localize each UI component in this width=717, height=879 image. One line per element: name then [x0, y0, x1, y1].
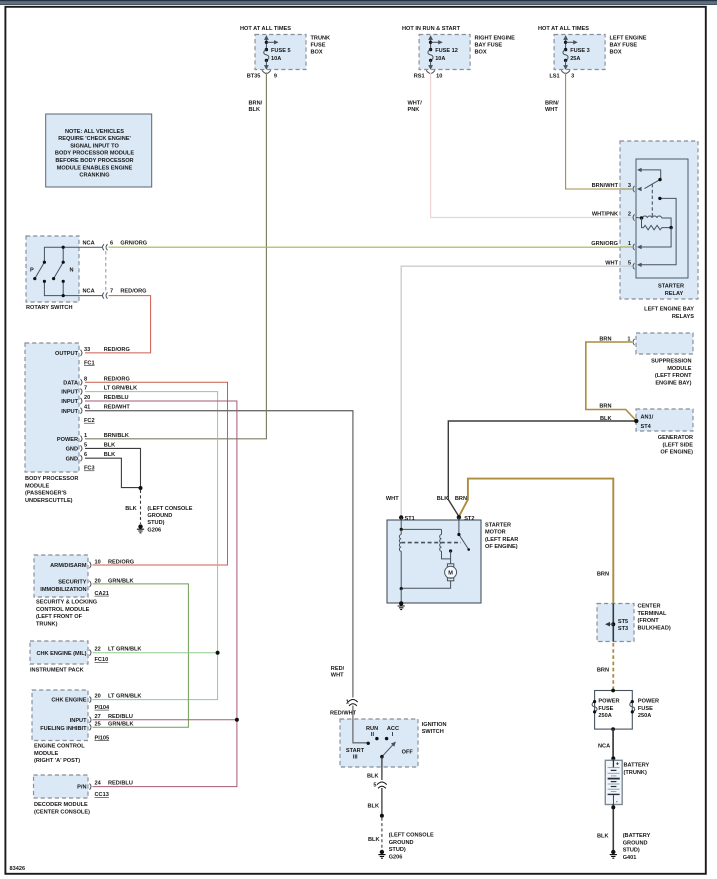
svg-text:CONTROL MODULE: CONTROL MODULE: [36, 607, 90, 613]
pin 7 INPUT wire LT GRN/BLK to instrument pack + ECM: [85, 392, 218, 700]
top slate bar: [0, 0, 717, 5]
svg-text:BLK: BLK: [597, 834, 609, 840]
starter internals: [399, 517, 470, 603]
svg-text:ARM/DISARM: ARM/DISARM: [50, 563, 87, 569]
svg-text:TERMINAL: TERMINAL: [638, 611, 667, 617]
starter ground: [398, 601, 405, 609]
relay pin 1: [633, 244, 635, 250]
junction BPM grounds: [139, 486, 143, 490]
motor return: [401, 581, 450, 588]
svg-text:BAY FUSE: BAY FUSE: [610, 43, 638, 49]
pin 1 POWER: [81, 436, 83, 442]
svg-text:(PASSENGER'S: (PASSENGER'S: [25, 491, 67, 497]
starter relay inner box: [636, 159, 688, 278]
svg-text:BLK: BLK: [367, 774, 379, 780]
svg-text:IGNITION: IGNITION: [422, 722, 447, 728]
svg-text:NOTE: ALL VEHICLES: NOTE: ALL VEHICLES: [65, 129, 124, 135]
svg-text:RED/BLU: RED/BLU: [108, 781, 133, 787]
wire stub BRN/WHT into relay pin 3: [619, 188, 633, 190]
svg-text:FUSE 3: FUSE 3: [570, 48, 590, 54]
relay switch output to pin 5: [641, 198, 676, 264]
svg-text:BAY FUSE: BAY FUSE: [475, 43, 503, 49]
svg-text:G401: G401: [623, 855, 637, 861]
svg-text:CENTER: CENTER: [638, 604, 661, 610]
svg-text:TRUNK: TRUNK: [311, 36, 331, 42]
svg-text:RED/BLU: RED/BLU: [104, 395, 129, 401]
svg-text:22: 22: [95, 647, 101, 653]
dashed BLK to ground: [381, 818, 383, 850]
svg-text:RED/BLU: RED/BLU: [108, 714, 133, 720]
svg-text:BOX: BOX: [475, 50, 487, 56]
pin 6 GND wire BLK: [85, 458, 139, 487]
svg-text:BULKHEAD): BULKHEAD): [638, 625, 671, 631]
ground G206 (left console ground stud): [137, 524, 144, 532]
svg-text:RED/: RED/: [331, 666, 345, 672]
mechanical link dashed: [651, 184, 653, 217]
svg-text:CHK ENGINE (MIL): CHK ENGINE (MIL): [36, 651, 86, 657]
svg-text:ENGINE BAY): ENGINE BAY): [655, 380, 691, 386]
svg-text:MODULE: MODULE: [34, 751, 59, 757]
ground G401 (battery ground stud): [610, 850, 617, 858]
svg-text:FUSE 12: FUSE 12: [435, 48, 458, 54]
svg-text:(RIGHT 'A' POST): (RIGHT 'A' POST): [34, 758, 80, 764]
pin 20 INPUT wire RED/BLU to ECM + decoder: [85, 401, 237, 787]
svg-text:20: 20: [95, 578, 101, 584]
svg-text:ST3: ST3: [618, 626, 628, 632]
svg-text:10A: 10A: [271, 56, 281, 62]
pull-in winding (left coil): [399, 529, 401, 589]
svg-text:LEFT ENGINE: LEFT ENGINE: [610, 36, 647, 42]
pin 24 P/N: [90, 784, 92, 790]
wire BLK generator to starter ST2: [448, 421, 636, 517]
dashed BLK stub to G206: [140, 490, 142, 524]
svg-text:BRN: BRN: [599, 404, 611, 410]
svg-text:(TRUNK): (TRUNK): [624, 770, 647, 776]
mechanical link dashed: [401, 542, 461, 544]
svg-text:BRN/: BRN/: [545, 101, 559, 107]
pin 27 INPUT wire RED/BLU: [93, 719, 236, 721]
ignition blade: [382, 744, 394, 757]
svg-text:SUPPRESSION: SUPPRESSION: [651, 359, 691, 365]
svg-text:RED/ORG: RED/ORG: [104, 347, 130, 353]
starter terminal ST2: [457, 515, 461, 519]
svg-text:BOX: BOX: [311, 50, 323, 56]
svg-text:INPUT: INPUT: [61, 399, 78, 405]
rotary switch box: [26, 236, 79, 302]
svg-text:UNDERSCUTTLE): UNDERSCUTTLE): [25, 498, 73, 504]
left engine bay relays outer box: [620, 141, 698, 299]
svg-text:GRN/BLK: GRN/BLK: [108, 721, 133, 727]
svg-text:FUSE: FUSE: [638, 706, 653, 712]
svg-text:MOTOR: MOTOR: [485, 530, 506, 536]
svg-text:20: 20: [84, 395, 90, 401]
wire WHT/PNK RS1 to starter relay pin 2: [431, 73, 632, 218]
svg-text:OF ENGINE): OF ENGINE): [660, 450, 693, 456]
svg-text:20: 20: [95, 694, 101, 700]
svg-text:10: 10: [436, 73, 442, 79]
svg-text:GROUND: GROUND: [147, 513, 172, 519]
wire WHT relay pin5 to starter ST1: [401, 266, 632, 516]
svg-text:7: 7: [84, 386, 87, 392]
pin 41 INPUT wire RED/WHT to ignition switch: [85, 411, 353, 698]
svg-text:3: 3: [571, 73, 574, 79]
battery box: [605, 760, 622, 804]
svg-text:BRN: BRN: [597, 572, 609, 578]
svg-text:(FRONT: (FRONT: [638, 618, 660, 624]
wire BRN starter ST2 to center terminal: [459, 479, 613, 604]
inline connector 5: [377, 782, 387, 788]
wire RED/ORG rotary NCA 7 to BPM output 33: [85, 296, 151, 353]
wire stub GRN/ORG into relay pin 1: [619, 246, 633, 248]
svg-text:GND: GND: [66, 447, 78, 453]
svg-text:START: START: [346, 748, 365, 754]
svg-text:(CENTER CONSOLE): (CENTER CONSOLE): [34, 809, 90, 815]
svg-text:27: 27: [95, 714, 101, 720]
svg-text:7: 7: [110, 289, 113, 295]
center terminal box: [597, 604, 634, 642]
svg-text:RIGHT ENGINE: RIGHT ENGINE: [475, 36, 516, 42]
svg-text:DECODER MODULE: DECODER MODULE: [34, 802, 88, 808]
svg-text:10A: 10A: [435, 56, 445, 62]
svg-text:STUD): STUD): [389, 847, 406, 853]
power fuse element right: [630, 702, 635, 712]
svg-text:BLK: BLK: [104, 452, 116, 458]
wire BRN suppression to generator: [586, 342, 637, 421]
svg-text:24: 24: [95, 781, 102, 787]
svg-text:(LEFT CONSOLE: (LEFT CONSOLE: [147, 506, 192, 512]
svg-text:BODY PROCESSOR: BODY PROCESSOR: [25, 476, 78, 482]
svg-text:TRUNK): TRUNK): [36, 621, 58, 627]
svg-text:6: 6: [84, 452, 87, 458]
svg-text:MODULE: MODULE: [25, 483, 50, 489]
ignition internals: [367, 737, 396, 759]
ground G206 (left console ground stud): [378, 850, 385, 858]
svg-text:MODULE ENABLES ENGINE: MODULE ENABLES ENGINE: [57, 165, 133, 171]
svg-text:POWER: POWER: [638, 699, 659, 705]
inline connector 1: [348, 700, 358, 706]
trunk fuse box: [240, 26, 330, 79]
wire RED/WHT connector to ignition switch: [353, 706, 367, 743]
suppression pin 1: [633, 339, 635, 345]
svg-text:250A: 250A: [598, 713, 611, 719]
svg-text:3: 3: [628, 183, 631, 189]
svg-text:NCA: NCA: [598, 744, 610, 750]
svg-text:BRN: BRN: [455, 496, 467, 502]
svg-text:POWER: POWER: [57, 437, 78, 443]
svg-text:LT GRN/BLK: LT GRN/BLK: [104, 386, 137, 392]
relay pin 3: [633, 186, 635, 192]
svg-text:AN1/: AN1/: [641, 415, 654, 421]
body processor module box: [25, 343, 79, 472]
svg-text:FC10: FC10: [95, 657, 109, 663]
svg-text:6: 6: [110, 240, 113, 246]
terminal arrow ST5/ST3: [611, 622, 615, 626]
svg-text:GRN/ORG: GRN/ORG: [591, 241, 618, 247]
pin 8 DATA wire RED/ORG to security module: [85, 382, 228, 565]
svg-text:P/N: P/N: [77, 785, 86, 791]
svg-text:BLK: BLK: [368, 837, 380, 843]
svg-text:P: P: [30, 268, 34, 274]
svg-text:N: N: [70, 268, 74, 274]
svg-text:BLK: BLK: [104, 442, 116, 448]
svg-text:(BATTERY: (BATTERY: [623, 833, 651, 839]
svg-text:RED/WHT: RED/WHT: [104, 405, 131, 411]
motor M: [447, 564, 453, 567]
svg-text:MODULE: MODULE: [667, 366, 692, 372]
junction LT GRN/BLK: [216, 651, 220, 655]
svg-text:STARTER: STARTER: [658, 284, 684, 290]
svg-text:NCA: NCA: [83, 289, 95, 295]
svg-text:HOT IN RUN & START: HOT IN RUN & START: [402, 26, 461, 32]
svg-text:RED/ORG: RED/ORG: [108, 559, 134, 565]
solenoid feed: [401, 518, 441, 530]
svg-text:III: III: [353, 754, 358, 760]
svg-text:ENGINE CONTROL: ENGINE CONTROL: [34, 744, 85, 750]
svg-text:G206: G206: [147, 527, 161, 533]
svg-text:(LEFT FRONT: (LEFT FRONT: [655, 373, 692, 379]
svg-text:CC13: CC13: [95, 792, 109, 798]
svg-text:GROUND: GROUND: [389, 840, 414, 846]
svg-text:10: 10: [95, 559, 101, 565]
svg-text:STARTER: STARTER: [485, 523, 511, 529]
svg-text:FUSE 5: FUSE 5: [271, 48, 291, 54]
svg-text:GROUND: GROUND: [623, 840, 648, 846]
starter switch: [459, 517, 469, 549]
svg-text:CHK ENGINE: CHK ENGINE: [51, 698, 86, 704]
svg-text:HOT AT ALL TIMES: HOT AT ALL TIMES: [538, 26, 589, 32]
svg-text:25: 25: [95, 721, 101, 727]
svg-text:INPUT: INPUT: [70, 718, 87, 724]
dashed BRN wire to power fuse: [612, 643, 614, 689]
svg-text:STUD): STUD): [147, 520, 164, 526]
power fuse element left: [592, 702, 597, 712]
relay coil: [636, 216, 671, 228]
svg-text:GND: GND: [66, 456, 78, 462]
pin 5 GND wire BLK: [85, 448, 141, 488]
svg-text:ST4: ST4: [641, 424, 652, 430]
svg-text:9: 9: [274, 73, 277, 79]
relay coil shunt resistor: [642, 218, 672, 230]
svg-text:BRN/WHT: BRN/WHT: [592, 183, 619, 189]
svg-text:250A: 250A: [638, 713, 651, 719]
svg-text:II: II: [371, 732, 375, 738]
wire BLK ignition to ground: [381, 757, 383, 780]
pin 20 CHK ENGINE: [90, 697, 92, 703]
svg-text:FUSE: FUSE: [311, 43, 326, 49]
security & locking control module box: [34, 555, 88, 597]
svg-text:FC2: FC2: [84, 418, 95, 424]
svg-text:G206: G206: [389, 854, 403, 860]
relay pin 5: [633, 263, 635, 269]
svg-text:BLK: BLK: [368, 804, 380, 810]
power fuse box: [595, 691, 633, 730]
svg-text:RS1: RS1: [414, 73, 425, 79]
svg-text:BATTERY: BATTERY: [624, 763, 650, 769]
svg-text:(LEFT SIDE: (LEFT SIDE: [663, 442, 694, 448]
svg-text:WHT: WHT: [331, 672, 344, 678]
svg-text:(LEFT REAR: (LEFT REAR: [485, 537, 518, 543]
svg-text:BRN: BRN: [597, 668, 609, 674]
suppression module box: [636, 333, 693, 354]
svg-text:INSTRUMENT PACK: INSTRUMENT PACK: [30, 668, 84, 674]
fuse LS1 (left engine bay): [538, 26, 647, 79]
svg-text:RELAYS: RELAYS: [672, 314, 694, 320]
svg-text:1: 1: [84, 433, 87, 439]
wire GRN/ORG rotary to relay pin 1: [109, 246, 633, 248]
svg-text:M: M: [448, 571, 453, 577]
svg-text:STUD): STUD): [623, 848, 640, 854]
svg-text:INPUT: INPUT: [61, 409, 78, 415]
svg-text:BOX: BOX: [610, 50, 622, 56]
svg-text:8: 8: [84, 376, 87, 382]
svg-text:CRANKING: CRANKING: [79, 173, 109, 179]
junction RED/BLU: [235, 718, 239, 722]
svg-text:BLK: BLK: [600, 416, 612, 422]
pin 20 SECURITY IMMOBILIZATION wire GRN/BLK to ECM 25: [93, 584, 189, 727]
svg-text:(LEFT CONSOLE: (LEFT CONSOLE: [389, 833, 434, 839]
svg-text:BLK: BLK: [249, 107, 261, 113]
svg-text:ST5: ST5: [618, 619, 628, 625]
coil return to pin 1: [641, 228, 671, 247]
connector boundary dashed: [105, 251, 107, 292]
svg-text:CA21: CA21: [95, 591, 109, 597]
svg-text:POWER: POWER: [598, 699, 619, 705]
relay switch blade: [645, 180, 661, 189]
relay pin 2: [633, 214, 635, 220]
pin 33 OUTPUT: [81, 350, 83, 356]
svg-text:33: 33: [84, 347, 90, 353]
generator box: [636, 409, 693, 431]
svg-text:ST2: ST2: [464, 516, 474, 522]
svg-text:BT35: BT35: [247, 73, 261, 79]
svg-text:25A: 25A: [570, 56, 580, 62]
svg-text:FUELING INHIBIT: FUELING INHIBIT: [40, 726, 87, 732]
svg-text:PI105: PI105: [95, 735, 110, 741]
svg-text:SECURITY & LOCKING: SECURITY & LOCKING: [36, 600, 97, 606]
svg-text:RED/ORG: RED/ORG: [120, 289, 146, 295]
wire BRN/BLK trunk fuse to BPM power: [85, 73, 266, 439]
svg-text:SIGNAL INPUT TO: SIGNAL INPUT TO: [70, 143, 119, 149]
svg-text:ST1: ST1: [405, 516, 415, 522]
svg-text:HOT AT ALL TIMES: HOT AT ALL TIMES: [240, 26, 291, 32]
svg-text:FUSE: FUSE: [598, 706, 613, 712]
svg-text:GRN/BLK: GRN/BLK: [108, 578, 133, 584]
svg-text:BLK: BLK: [437, 496, 449, 502]
generator terminal AN1/ST4: [634, 419, 638, 423]
instrument pack box: [30, 641, 88, 664]
battery cells: [608, 760, 620, 804]
svg-text:BRN/BLK: BRN/BLK: [104, 433, 129, 439]
svg-text:BODY PROCESSOR MODULE: BODY PROCESSOR MODULE: [55, 151, 134, 157]
svg-text:5: 5: [84, 442, 87, 448]
svg-text:GENERATOR: GENERATOR: [658, 435, 693, 441]
svg-text:1: 1: [628, 241, 631, 247]
svg-text:OF ENGINE): OF ENGINE): [485, 544, 518, 550]
hold-in winding (right coil): [440, 529, 451, 559]
svg-text:LEFT ENGINE BAY: LEFT ENGINE BAY: [644, 307, 694, 313]
wire BLK battery to ground: [612, 804, 614, 850]
svg-text:SECURITY: SECURITY: [58, 579, 87, 585]
svg-text:OFF: OFF: [402, 750, 414, 756]
decoder module box: [34, 775, 89, 798]
NCA pin 7 connector: [103, 293, 105, 299]
motor contact: [449, 549, 452, 552]
svg-text:LT GRN/BLK: LT GRN/BLK: [108, 694, 141, 700]
svg-text:FC1: FC1: [84, 360, 95, 366]
svg-text:1: 1: [346, 700, 349, 706]
svg-text:LS1: LS1: [549, 73, 559, 79]
svg-text:ROTARY SWITCH: ROTARY SWITCH: [26, 305, 73, 311]
svg-text:5: 5: [373, 783, 376, 789]
svg-text:BLK: BLK: [125, 506, 137, 512]
NCA pin 6 connector: [103, 244, 105, 250]
ignition switch box: [340, 719, 418, 767]
svg-text:IMMOBILIZATION: IMMOBILIZATION: [40, 587, 86, 593]
svg-text:83426: 83426: [10, 866, 26, 872]
svg-text:PNK: PNK: [408, 107, 420, 113]
pin 25 FUELING INHIBIT: [90, 724, 92, 730]
svg-text:-: -: [616, 799, 618, 805]
svg-text:NCA: NCA: [83, 240, 95, 246]
svg-text:BRN/: BRN/: [249, 101, 263, 107]
wire BRN/WHT LS1 to starter relay pin 3: [566, 73, 632, 190]
svg-text:SWITCH: SWITCH: [422, 729, 444, 735]
pin 10 ARM/DISARM: [90, 562, 92, 568]
pin 22 CHK ENGINE (MIL) wire LT GRN/BLK: [93, 652, 217, 654]
wire through center terminal box: [612, 604, 614, 642]
svg-text:(LEFT FRONT OF: (LEFT FRONT OF: [36, 614, 83, 620]
starter motor box: [387, 520, 481, 603]
svg-text:2: 2: [628, 212, 631, 218]
svg-text:DATA: DATA: [63, 380, 78, 386]
note box: [46, 114, 152, 187]
svg-text:REQUIRE 'CHECK ENGINE': REQUIRE 'CHECK ENGINE': [58, 136, 131, 142]
svg-text:OUTPUT: OUTPUT: [55, 351, 79, 357]
svg-text:WHT: WHT: [386, 496, 399, 502]
svg-text:GRN/ORG: GRN/ORG: [120, 240, 147, 246]
svg-text:WHT/: WHT/: [408, 101, 423, 107]
wire NCA power fuse to battery: [612, 729, 614, 760]
fuse RS1 (right engine bay): [402, 26, 515, 79]
svg-text:BEFORE BODY PROCESSOR: BEFORE BODY PROCESSOR: [55, 158, 133, 164]
rotary switch internals: [30, 246, 103, 298]
engine control module box: [32, 690, 88, 741]
starter terminal ST1: [399, 515, 403, 519]
svg-text:INPUT: INPUT: [61, 390, 78, 396]
svg-text:FC3: FC3: [84, 466, 95, 472]
svg-text:WHT: WHT: [545, 107, 558, 113]
switch N: [54, 262, 64, 278]
svg-text:PI104: PI104: [95, 705, 111, 711]
wire stub WHT/PNK into relay pin 2: [619, 217, 633, 219]
svg-text:RED/ORG: RED/ORG: [104, 376, 130, 382]
svg-text:41: 41: [84, 405, 90, 411]
relay internals: [636, 168, 676, 267]
svg-text:RELAY: RELAY: [665, 291, 684, 297]
relay common top wire: [641, 170, 661, 180]
junction: [380, 814, 384, 818]
svg-text:WHT/PNK: WHT/PNK: [592, 212, 618, 218]
switch P: [35, 262, 45, 278]
svg-text:LT GRN/BLK: LT GRN/BLK: [108, 647, 141, 653]
